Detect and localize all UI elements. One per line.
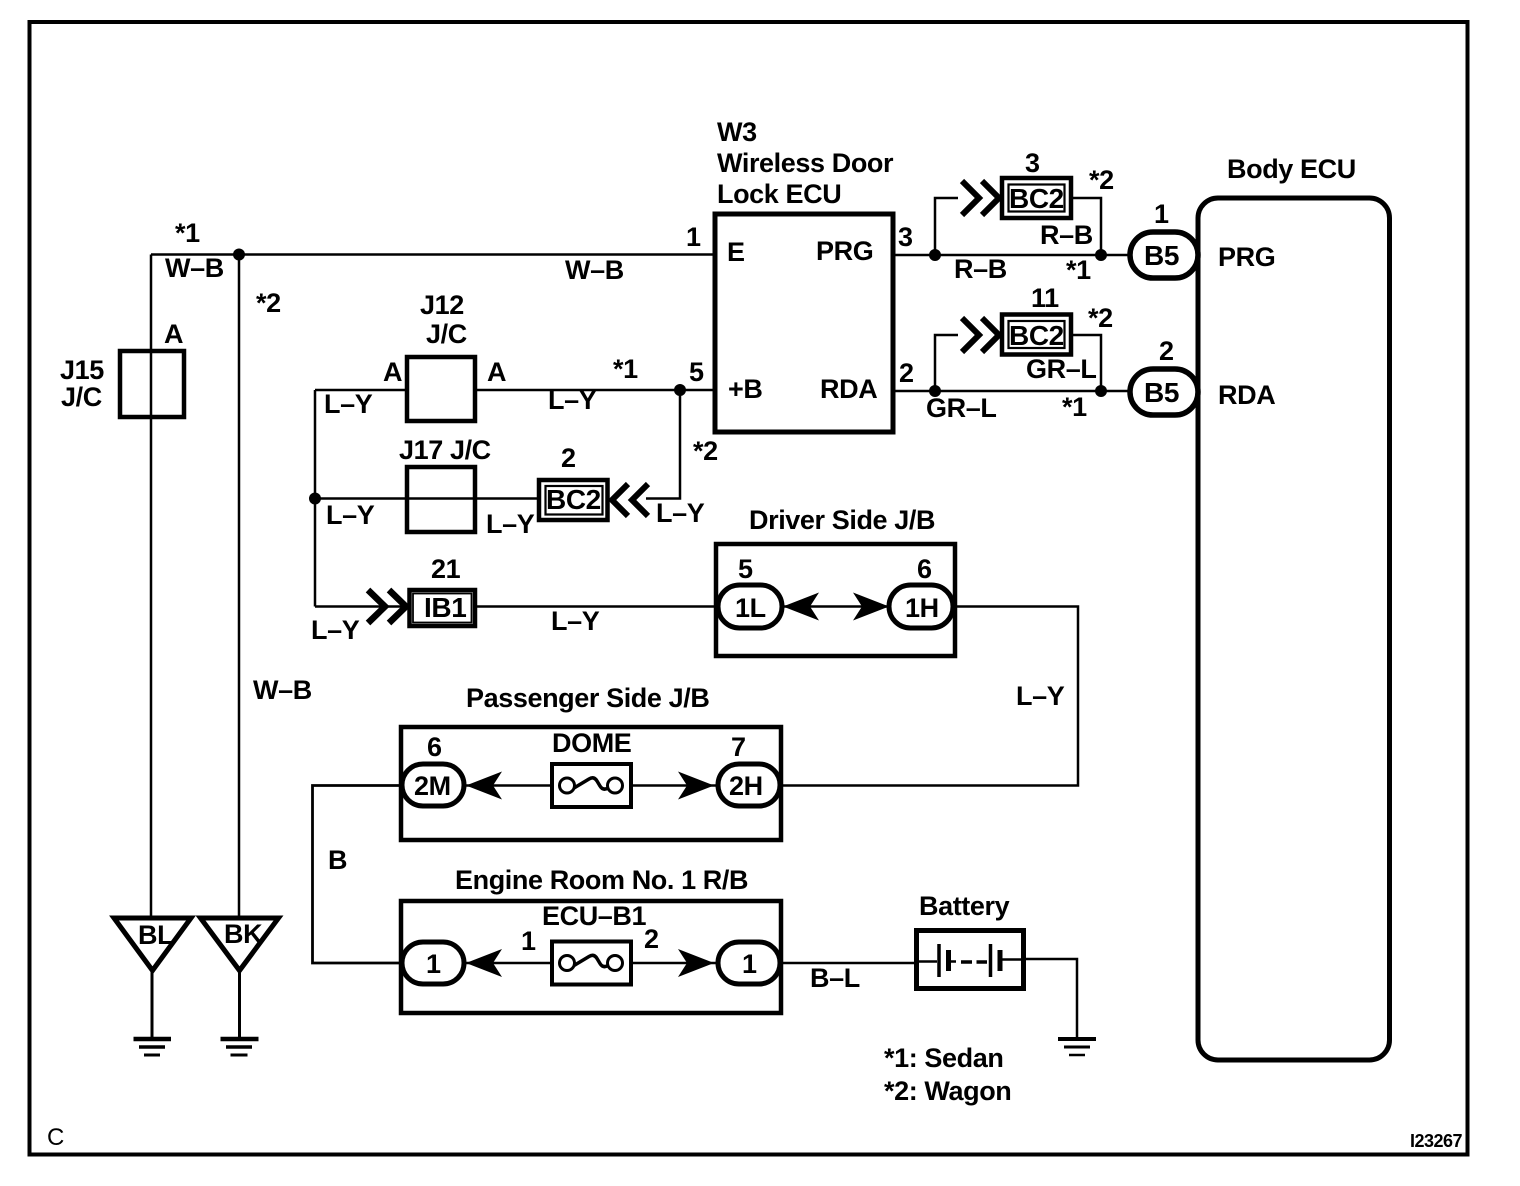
label 11 above BC2 xyxy=(1031,283,1059,313)
label 2 above B5 xyxy=(1159,336,1174,366)
svg-text:*2: *2 xyxy=(693,436,718,466)
svg-text:RDA: RDA xyxy=(1218,380,1275,410)
ground triangle BK xyxy=(201,918,279,971)
svg-text:7: 7 xyxy=(731,732,746,762)
wire L-Y driver J/B down to passenger J/B xyxy=(781,607,1078,786)
arrow toward 1H xyxy=(853,593,889,621)
label GR-L upper xyxy=(1026,354,1096,384)
label *1 PRG xyxy=(1066,255,1091,285)
node junction GR-L right xyxy=(1095,385,1107,397)
label A above J15 xyxy=(164,319,183,349)
svg-text:I23267: I23267 xyxy=(1410,1131,1463,1151)
arrow toward 1 left xyxy=(466,949,502,977)
node junction R-B right xyxy=(1095,249,1107,261)
svg-text:Passenger Side J/B: Passenger Side J/B xyxy=(466,683,709,713)
legend *2 Wagon xyxy=(884,1076,1011,1106)
svg-text:*1: *1 xyxy=(1066,255,1091,285)
connector oval 2M xyxy=(402,764,464,806)
ground symbol BK xyxy=(221,1039,259,1055)
ground triangle BL xyxy=(114,918,191,971)
svg-text:J12: J12 xyxy=(420,290,464,320)
label B xyxy=(328,845,347,875)
svg-text:L–Y: L–Y xyxy=(326,500,375,530)
wire GR-L wagon loop up xyxy=(935,335,958,391)
svg-text:1: 1 xyxy=(521,926,536,956)
svg-text:6: 6 xyxy=(427,732,442,762)
svg-text:R–B: R–B xyxy=(954,254,1007,284)
pin +B label xyxy=(728,374,762,404)
pin E label xyxy=(727,237,745,267)
label W3 Wireless Door Lock ECU xyxy=(717,117,894,209)
pin PRG body label xyxy=(1218,242,1275,272)
svg-text:BC2: BC2 xyxy=(1009,320,1064,351)
svg-text:B5: B5 xyxy=(1144,240,1179,271)
connector oval B5 PRG xyxy=(1130,232,1198,278)
svg-text:2: 2 xyxy=(644,924,659,954)
label Driver Side J/B xyxy=(749,505,935,535)
svg-text:GR–L: GR–L xyxy=(1026,354,1096,384)
label GR-L lower xyxy=(926,393,996,423)
label ECU-B1 xyxy=(542,901,647,931)
connector BC2 PRG xyxy=(1002,178,1071,218)
svg-text:L–Y: L–Y xyxy=(1016,681,1065,711)
pin 3 label xyxy=(898,222,913,252)
wire R-B wagon loop up xyxy=(935,198,958,255)
svg-text:PRG: PRG xyxy=(1218,242,1275,272)
junction connector J15 J/C xyxy=(120,351,184,417)
wire B passenger J/B to engine room R/B xyxy=(313,786,403,964)
pin 5 label xyxy=(689,357,704,387)
connector BC2 RDA xyxy=(1002,315,1071,355)
svg-text:L–Y: L–Y xyxy=(551,606,600,636)
svg-text:2: 2 xyxy=(1159,336,1174,366)
label *1 sedan wire xyxy=(175,218,200,248)
label R-B upper xyxy=(1040,220,1093,250)
label J12 J/C xyxy=(420,290,467,349)
svg-text:BC2: BC2 xyxy=(1009,183,1064,214)
label 3 above BC2 xyxy=(1025,148,1040,178)
node junction W-B xyxy=(233,249,245,261)
label Battery xyxy=(919,891,1010,921)
label C corner xyxy=(47,1124,64,1151)
svg-text:*1: *1 xyxy=(613,354,638,384)
svg-text:L–Y: L–Y xyxy=(656,498,705,528)
pin 1 label xyxy=(686,222,701,252)
svg-text:1L: 1L xyxy=(735,593,766,623)
svg-text:J15: J15 xyxy=(60,355,104,385)
svg-text:PRG: PRG xyxy=(816,236,873,266)
wire BC2 RDA down xyxy=(1071,335,1101,391)
legend *1 Sedan xyxy=(884,1043,1003,1073)
wire fuse to 1 right xyxy=(631,962,718,965)
node junction at +B xyxy=(674,384,686,396)
arrow toward 2M xyxy=(466,772,502,800)
svg-text:2: 2 xyxy=(899,358,914,388)
svg-text:A: A xyxy=(383,357,402,387)
svg-text:*2: Wagon: *2: Wagon xyxy=(884,1076,1011,1106)
svg-text:Engine Room No. 1 R/B: Engine Room No. 1 R/B xyxy=(455,865,748,895)
label L-Y below left J17 xyxy=(326,500,375,530)
label pin 6 xyxy=(427,732,442,762)
chevron arrows into IB1 xyxy=(368,590,406,623)
wire R-B PRG to B5 xyxy=(893,254,1131,257)
label B-L xyxy=(810,963,860,993)
wire BL to ground xyxy=(151,969,154,1037)
label *2 near +B xyxy=(693,436,718,466)
wire BC2 PRG down xyxy=(1071,198,1101,255)
label J17 J/C xyxy=(399,435,491,465)
label DOME xyxy=(552,728,631,758)
svg-text:B–L: B–L xyxy=(810,963,860,993)
node junction L-Y xyxy=(309,493,321,505)
label W-B lower xyxy=(253,675,312,705)
label *2 wagon wire xyxy=(256,288,281,318)
label L-Y mid wire xyxy=(551,606,600,636)
arrow toward 1 right xyxy=(678,949,714,977)
label L-Y vertical xyxy=(1016,681,1065,711)
svg-text:BC2: BC2 xyxy=(546,484,601,515)
svg-text:R–B: R–B xyxy=(1040,220,1093,250)
pin RDA label xyxy=(820,374,877,404)
svg-text:L–Y: L–Y xyxy=(548,385,597,415)
wire L-Y through J17 to BC2 xyxy=(315,497,539,500)
label *2 PRG xyxy=(1089,165,1114,195)
wire W-B vertical to BL ground xyxy=(150,255,153,917)
wire L-Y IB1 to driver J/B xyxy=(477,605,719,608)
label L-Y right of J12 xyxy=(548,385,597,415)
label Passenger Side J/B xyxy=(466,683,709,713)
svg-text:2M: 2M xyxy=(414,771,451,801)
node junction R-B left xyxy=(929,249,941,261)
connector BC2 wagon xyxy=(539,480,608,520)
connector oval 1 right xyxy=(718,942,780,984)
ground symbol battery xyxy=(1058,1039,1096,1055)
svg-text:6: 6 xyxy=(917,554,932,584)
battery xyxy=(916,931,1025,989)
svg-text:J/C: J/C xyxy=(426,319,467,349)
svg-text:DOME: DOME xyxy=(552,728,631,758)
svg-text:1: 1 xyxy=(686,222,701,252)
junction block Passenger Side J/B xyxy=(401,727,781,840)
svg-text:J/C: J/C xyxy=(61,382,102,412)
label A right of J12 xyxy=(487,357,506,387)
label 1 above B5 xyxy=(1154,199,1169,229)
svg-text:21: 21 xyxy=(431,554,461,584)
svg-text:*2: *2 xyxy=(1088,303,1113,333)
junction connector J12 J/C xyxy=(407,357,475,421)
svg-text:3: 3 xyxy=(1025,148,1040,178)
pin PRG label xyxy=(816,236,873,266)
svg-text:L–Y: L–Y xyxy=(324,389,373,419)
wire W-B from corner to ECU pin E xyxy=(151,253,715,256)
wire 1 to fuse xyxy=(464,962,552,965)
fuse DOME xyxy=(552,764,631,807)
svg-text:E: E xyxy=(727,237,745,267)
wire between arrows xyxy=(782,605,890,608)
label L-Y below chevrons xyxy=(311,615,360,645)
label *2 RDA xyxy=(1088,303,1113,333)
label pin 2 xyxy=(644,924,659,954)
wire battery to ground xyxy=(1025,959,1077,1037)
svg-text:ECU–B1: ECU–B1 xyxy=(542,901,647,931)
svg-text:2: 2 xyxy=(561,443,576,473)
svg-text:GR–L: GR–L xyxy=(926,393,996,423)
svg-text:2H: 2H xyxy=(729,771,763,801)
svg-text:BK: BK xyxy=(224,919,263,949)
label pin 5 xyxy=(738,554,753,584)
label A left of J12 xyxy=(383,357,402,387)
svg-text:*1: Sedan: *1: Sedan xyxy=(884,1043,1003,1073)
wire L-Y to IB1 xyxy=(315,605,407,608)
svg-text:B5: B5 xyxy=(1144,377,1179,408)
label W-B mid wire xyxy=(565,255,624,285)
svg-text:1H: 1H xyxy=(905,593,939,623)
svg-text:A: A xyxy=(164,319,183,349)
arrow toward 2H xyxy=(678,772,714,800)
label Body ECU xyxy=(1227,154,1356,184)
label L-Y right of J17 xyxy=(486,509,535,539)
svg-text:1: 1 xyxy=(426,949,441,979)
svg-text:Lock ECU: Lock ECU xyxy=(717,179,841,209)
junction connector J17 J/C xyxy=(407,467,475,532)
svg-text:J17 J/C: J17 J/C xyxy=(399,435,491,465)
svg-text:L–Y: L–Y xyxy=(311,615,360,645)
svg-text:1: 1 xyxy=(742,949,757,979)
wire fuse to 2H xyxy=(631,784,718,787)
svg-text:Driver Side J/B: Driver Side J/B xyxy=(749,505,935,535)
fuse ECU-B1 xyxy=(552,942,631,985)
svg-text:11: 11 xyxy=(1031,283,1059,313)
connector oval 1 left xyxy=(402,942,464,984)
svg-text:L–Y: L–Y xyxy=(486,509,535,539)
label 21 above IB1 xyxy=(431,554,461,584)
wire *2 vertical from +B node xyxy=(646,390,680,499)
svg-text:B: B xyxy=(328,845,347,875)
ECU Body box xyxy=(1198,198,1390,1060)
svg-text:3: 3 xyxy=(898,222,913,252)
wire W-B vertical to BK ground xyxy=(238,255,241,918)
connector oval 1L xyxy=(718,585,782,628)
label pin 1 xyxy=(521,926,536,956)
svg-text:W3: W3 xyxy=(717,117,757,147)
svg-text:*1: *1 xyxy=(175,218,200,248)
svg-text:W–B: W–B xyxy=(165,253,224,283)
label *1 RDA xyxy=(1062,392,1087,422)
svg-text:Wireless Door: Wireless Door xyxy=(717,148,894,178)
wire L-Y vertical left xyxy=(314,390,317,607)
label pin 7 xyxy=(731,732,746,762)
svg-text:*1: *1 xyxy=(1062,392,1087,422)
ground symbol BL xyxy=(134,1039,172,1055)
chevron arrows into BC2 xyxy=(612,484,648,516)
wire 2M to fuse xyxy=(464,784,552,787)
ECU W3 box xyxy=(715,214,893,432)
wire GR-L RDA to B5 xyxy=(893,390,1131,393)
pin 2 label xyxy=(899,358,914,388)
connector IB1 xyxy=(410,590,476,626)
junction block Driver Side J/B xyxy=(716,544,955,656)
label I23267 xyxy=(1410,1131,1463,1151)
connector oval 1H xyxy=(889,585,953,628)
wire L-Y J12 to +B xyxy=(475,389,715,392)
svg-text:C: C xyxy=(47,1124,64,1151)
svg-text:1: 1 xyxy=(1154,199,1169,229)
svg-text:W–B: W–B xyxy=(565,255,624,285)
svg-text:BL: BL xyxy=(138,920,173,950)
wire L-Y left of J12 xyxy=(315,389,407,392)
svg-text:5: 5 xyxy=(689,357,704,387)
svg-text:5: 5 xyxy=(738,554,753,584)
label Engine Room No. 1 R/B xyxy=(455,865,748,895)
label L-Y below left J12 xyxy=(324,389,373,419)
relay block Engine Room No. 1 R/B xyxy=(401,901,781,1013)
svg-text:A: A xyxy=(487,357,506,387)
svg-text:Battery: Battery xyxy=(919,891,1010,921)
svg-text:+B: +B xyxy=(728,374,762,404)
label pin 6 xyxy=(917,554,932,584)
label J15 J/C xyxy=(60,355,104,412)
svg-text:*2: *2 xyxy=(1089,165,1114,195)
svg-text:W–B: W–B xyxy=(253,675,312,705)
label W-B left xyxy=(165,253,224,283)
connector oval B5 RDA xyxy=(1130,369,1198,415)
svg-text:RDA: RDA xyxy=(820,374,877,404)
label R-B lower xyxy=(954,254,1007,284)
arrow toward 1L xyxy=(783,593,819,621)
svg-text:Body ECU: Body ECU xyxy=(1227,154,1356,184)
label *1 near pin 5 xyxy=(613,354,638,384)
connector oval 2H xyxy=(718,764,780,806)
chevron arrows into BC2 PRG xyxy=(962,181,999,215)
label L-Y right of chevrons xyxy=(656,498,705,528)
pin RDA body label xyxy=(1218,380,1275,410)
svg-text:IB1: IB1 xyxy=(424,592,466,623)
wire B-L to battery xyxy=(781,962,916,965)
label 2 above BC2 xyxy=(561,443,576,473)
chevron arrows into BC2 RDA xyxy=(962,318,999,352)
svg-text:*2: *2 xyxy=(256,288,281,318)
wire BK to ground xyxy=(238,969,241,1037)
node junction GR-L left xyxy=(929,385,941,397)
